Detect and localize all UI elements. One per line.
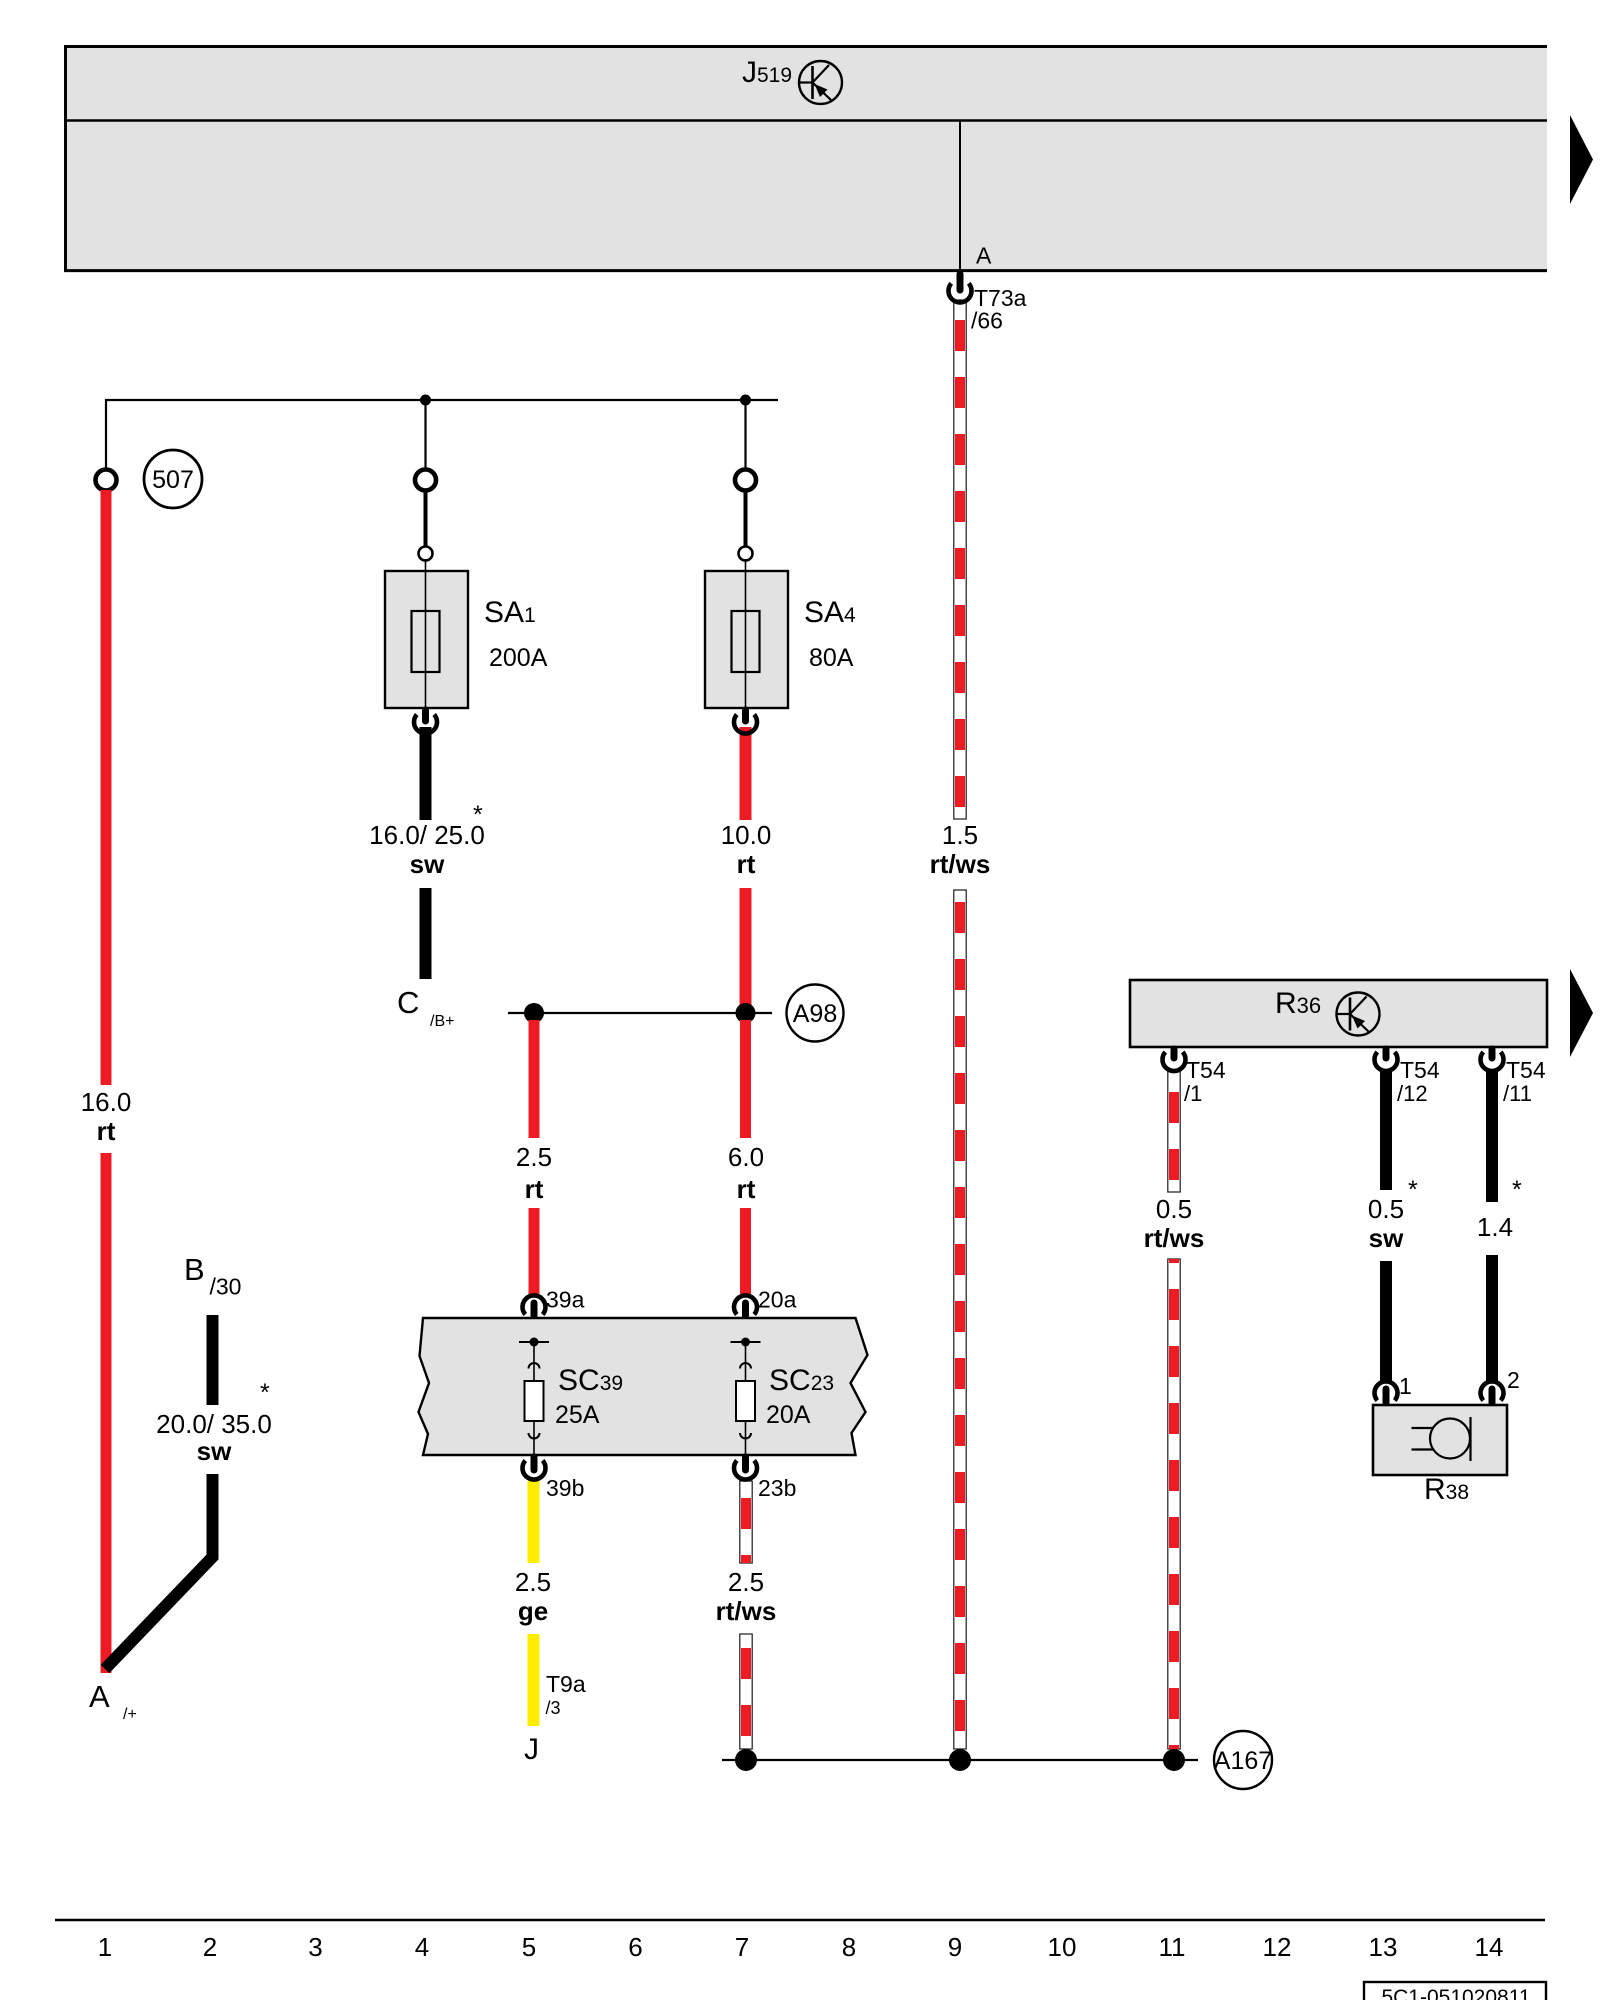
svg-text:5C1-051020811: 5C1-051020811 [1381, 1986, 1530, 2000]
svg-text:T54: T54 [1186, 1057, 1226, 1083]
svg-text:13: 13 [1369, 1932, 1398, 1962]
node label A167 [1214, 1731, 1272, 1789]
fuse SC23 symbol [731, 1338, 761, 1456]
terminal eyelet above SA1 [415, 470, 436, 491]
svg-text:sw: sw [197, 1436, 232, 1466]
node A167 connection line [722, 1759, 1198, 1761]
junction dot (bus / SA4) [740, 395, 751, 406]
junction dot (A167 right) [1163, 1749, 1185, 1771]
svg-text:sw: sw [410, 849, 445, 879]
svg-text:10.0: 10.0 [721, 820, 772, 850]
svg-text:A167: A167 [1214, 1747, 1272, 1775]
connector pin 1 (R38) [1374, 1373, 1411, 1403]
transistor icon U (in J519) [799, 61, 842, 104]
wire drop to terminal 507 [105, 399, 107, 470]
wire rt 2.5 (lower segment to SC39) [529, 1208, 540, 1295]
wire sw (lower segment with diagonal to terminal A) [105, 1474, 213, 1669]
wire bus (top horizontal) [105, 399, 778, 401]
svg-text:0.5: 0.5 [1156, 1194, 1192, 1224]
grid scale line [55, 1919, 1545, 1922]
svg-text:/3: /3 [546, 1698, 561, 1718]
svg-text:16.0/ 25.0: 16.0/ 25.0 [369, 820, 485, 850]
svg-text:39b: 39b [546, 1475, 584, 1501]
wire rt 6.0 (lower segment to SC23) [740, 1208, 751, 1295]
connector label T9a/3 [546, 1671, 586, 1718]
svg-text:rt/ws: rt/ws [930, 849, 991, 879]
svg-text:39a: 39a [546, 1287, 585, 1313]
svg-text:sw: sw [1369, 1223, 1404, 1253]
wire ge 2.5 (lower segment) [528, 1634, 540, 1726]
svg-text:A98: A98 [793, 1000, 837, 1028]
junction dot (right, node A98) [736, 1003, 756, 1023]
wire link to SA4 [744, 491, 748, 547]
wire drop to SA4 [744, 400, 746, 469]
svg-text:2.5: 2.5 [515, 1567, 551, 1597]
wire sw 0.5 (upper segment) [1380, 1070, 1392, 1190]
svg-text:200A: 200A [489, 644, 548, 672]
svg-text:20a: 20a [758, 1287, 797, 1313]
svg-text:ge: ge [518, 1596, 548, 1626]
junction dot (A167 left) [735, 1749, 757, 1771]
svg-text:J: J [524, 1733, 539, 1766]
svg-text:/30: /30 [210, 1274, 242, 1300]
connector T54/1 [1163, 1049, 1226, 1106]
connector pin 20a [734, 1287, 797, 1317]
svg-text:6: 6 [628, 1932, 642, 1962]
control unit R36 [1130, 980, 1547, 1047]
svg-text:80A: 80A [809, 644, 854, 672]
transistor icon (in R36) [1337, 993, 1380, 1036]
wire sw 16.0/25.0 (upper segment) [420, 727, 432, 820]
node A98 connection line [508, 1012, 772, 1014]
fuse panel SC (torn-edge box) [419, 1318, 868, 1455]
svg-text:7: 7 [735, 1932, 749, 1962]
connector pin below SA4 [734, 710, 757, 734]
wire rt 16.0 (upper segment) [101, 490, 112, 1085]
terminal label C /B+ [397, 985, 454, 1030]
svg-text:2.5: 2.5 [516, 1142, 552, 1172]
connector pin below SA1 [414, 710, 437, 734]
small terminal circle above SA4 [739, 547, 753, 561]
lamp R38 (box) [1373, 1405, 1507, 1475]
svg-text:16.0: 16.0 [81, 1087, 132, 1117]
junction dot (A167 middle) [949, 1749, 971, 1771]
svg-text:rt: rt [737, 849, 756, 879]
svg-text:4: 4 [415, 1932, 429, 1962]
svg-text:9: 9 [948, 1932, 962, 1962]
svg-text:0.5: 0.5 [1368, 1194, 1404, 1224]
svg-text:rt: rt [97, 1116, 116, 1146]
svg-text:rt/ws: rt/ws [716, 1596, 777, 1626]
wire rt/ws 0.5 (upper segment) [1168, 1070, 1180, 1192]
svg-text:C: C [397, 985, 419, 1020]
svg-text:1.5: 1.5 [942, 820, 978, 850]
wire sw 1.4 (lower segment to R38 pin 2) [1486, 1255, 1498, 1383]
wire rt 16.0 (lower segment) [101, 1153, 112, 1673]
svg-text:*: * [1408, 1176, 1418, 1204]
svg-text:1.4: 1.4 [1477, 1212, 1513, 1242]
svg-text:23b: 23b [758, 1475, 796, 1501]
drawing number box 5C1-051020811 [1364, 1982, 1546, 2005]
wire rt 6.0 (upper segment) [740, 1020, 751, 1138]
wire rt 10.0 (lower segment to node A98) [740, 888, 752, 1013]
fuse SA1 [385, 559, 468, 708]
node label 507 [144, 450, 202, 508]
wire rt/ws 1.5 (lower segment, down to A167 node) [954, 890, 966, 1749]
svg-text:2: 2 [1507, 1367, 1520, 1393]
svg-text:6.0: 6.0 [728, 1142, 764, 1172]
wire rt 2.5 (upper segment) [529, 1020, 540, 1138]
grid numbers 1-14 [98, 1932, 1504, 1962]
svg-text:1: 1 [1399, 1373, 1412, 1399]
svg-text:B: B [184, 1252, 205, 1287]
svg-text:25A: 25A [555, 1401, 600, 1429]
bulb icon (in R38) [1412, 1417, 1471, 1461]
connector pin 39b [523, 1457, 585, 1501]
wire sw 0.5 (lower segment to R38 pin 1) [1380, 1261, 1392, 1383]
connector T73a/66 [948, 274, 1026, 334]
wire sw (lower segment to C) [420, 888, 432, 979]
svg-text:12: 12 [1263, 1932, 1292, 1962]
svg-text:/+: /+ [123, 1706, 137, 1723]
svg-text:/12: /12 [1397, 1081, 1428, 1106]
svg-text:14: 14 [1475, 1932, 1504, 1962]
svg-text:2: 2 [203, 1932, 217, 1962]
svg-text:/11: /11 [1503, 1081, 1532, 1106]
svg-text:20.0/ 35.0: 20.0/ 35.0 [156, 1409, 272, 1439]
fuse SC39 symbol [519, 1338, 549, 1456]
small terminal circle above SA1 [419, 547, 433, 561]
svg-text:2.5: 2.5 [728, 1567, 764, 1597]
svg-text:10: 10 [1048, 1932, 1077, 1962]
svg-text:T54: T54 [1400, 1057, 1440, 1083]
terminal label B /30 [184, 1252, 241, 1300]
connector pin 23b [734, 1457, 796, 1501]
wire rt/ws 2.5 (lower segment to node A167) [740, 1634, 752, 1749]
svg-text:A: A [976, 243, 992, 269]
svg-text:20A: 20A [766, 1401, 811, 1429]
svg-text:/B+: /B+ [430, 1013, 454, 1030]
connector T54/11 [1481, 1049, 1546, 1106]
svg-text:/1: /1 [1184, 1081, 1202, 1106]
wire rt/ws 0.5 (lower segment to node A167) [1168, 1259, 1180, 1749]
svg-text:1: 1 [98, 1932, 112, 1962]
svg-text:507: 507 [152, 466, 194, 494]
svg-text:A: A [89, 1679, 110, 1714]
wire sw 1.4 (upper segment) [1486, 1070, 1498, 1202]
svg-text:/66: /66 [971, 308, 1003, 334]
continuation arrow (top right) [1570, 115, 1593, 204]
label J519 [742, 56, 792, 89]
svg-text:8: 8 [842, 1932, 856, 1962]
svg-text:rt: rt [737, 1174, 756, 1204]
wire rt/ws 1.5 from J519-A (upper segment) [954, 300, 966, 819]
terminal label A /+ [89, 1679, 137, 1723]
fuse SA4 [705, 559, 788, 708]
terminal eyelet (battery positive lead) [96, 470, 117, 491]
svg-text:3: 3 [308, 1932, 322, 1962]
svg-text:11: 11 [1159, 1932, 1186, 1962]
wire drop to SA1 [424, 400, 426, 469]
connector T54/12 [1374, 1049, 1439, 1106]
wire link to SA1 [424, 491, 428, 547]
terminal eyelet above SA4 [735, 470, 756, 491]
continuation arrow (right of R36) [1570, 969, 1593, 1057]
wire ge 2.5 (upper segment) [528, 1481, 540, 1563]
wire rt 10.0 (upper segment) [740, 727, 752, 820]
svg-text:*: * [260, 1379, 270, 1407]
svg-text:rt/ws: rt/ws [1144, 1223, 1205, 1253]
control unit J519 (onboard supply control unit) [64, 45, 1547, 272]
wire sw 20.0/35.0 (upper segment) [207, 1315, 219, 1405]
svg-text:*: * [1512, 1176, 1522, 1204]
junction dot (bus / SA1) [420, 395, 431, 406]
svg-text:rt: rt [525, 1174, 544, 1204]
pin column line inside J519 [959, 121, 961, 271]
connector pin 2 (R38) [1481, 1367, 1520, 1403]
node label A98 [787, 985, 844, 1042]
connector pin 39a [523, 1287, 585, 1317]
svg-text:5: 5 [522, 1932, 536, 1962]
svg-text:T9a: T9a [546, 1671, 586, 1697]
wire rt/ws 2.5 (upper segment) [740, 1481, 752, 1563]
junction dot (left, node A98) [524, 1003, 544, 1023]
svg-text:T54: T54 [1506, 1057, 1546, 1083]
